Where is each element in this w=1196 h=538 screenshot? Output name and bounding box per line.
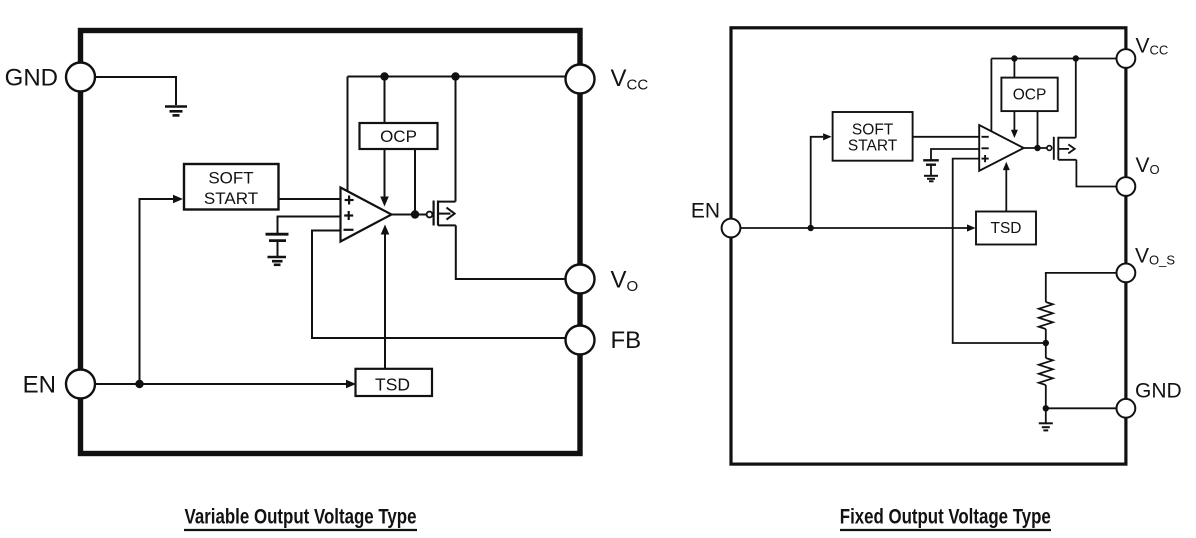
block SOFT START bbox=[184, 164, 279, 210]
pin Vo (circle, right, fixed) bbox=[1117, 177, 1136, 196]
wire Vo_s to divider bbox=[1046, 273, 1117, 302]
svg-text:TSD: TSD bbox=[991, 220, 1022, 237]
pin FB (circle, right) bbox=[566, 326, 595, 355]
svg-text:TSD: TSD bbox=[375, 375, 410, 395]
wire rail into OCP (fixed) bbox=[1013, 59, 1015, 78]
ground symbol (divider, fixed) bbox=[1039, 423, 1053, 430]
wire EN to TSD (with arrow) bbox=[95, 383, 346, 385]
block SOFT START (fixed) bbox=[833, 112, 913, 161]
svg-text:SOFT: SOFT bbox=[852, 122, 894, 139]
op-amp U1 (error amplifier) bbox=[341, 188, 392, 242]
wire Vcc rail (top) bbox=[348, 76, 566, 78]
block OCP (fixed) bbox=[1001, 78, 1057, 112]
block TSD (fixed) bbox=[976, 212, 1036, 245]
wire OCP control arrow into op-amp bbox=[384, 149, 386, 197]
ground symbol (Vref) bbox=[268, 257, 287, 265]
transistor Q2 PMOS pass element (fixed) bbox=[1047, 137, 1077, 160]
wire MOSFET drain to Vo pin bbox=[456, 225, 566, 279]
svg-text:SOFT: SOFT bbox=[208, 169, 253, 188]
wire OCP control arrow into op-amp (fixed) bbox=[1013, 111, 1015, 130]
svg-text:GND: GND bbox=[1135, 380, 1182, 403]
wire EN up to SOFT START (with arrow) bbox=[140, 199, 174, 384]
svg-text:OCP: OCP bbox=[380, 127, 417, 146]
wire rail down to op-amp supply (fixed) bbox=[990, 59, 992, 132]
junction dot rail/OCP (fixed) bbox=[1011, 55, 1017, 61]
op-amp U2 (error amplifier, fixed) bbox=[979, 125, 1024, 171]
svg-text:Variable Output Voltage Type: Variable Output Voltage Type bbox=[185, 505, 417, 529]
junction dot rail/MOSFET source (fixed) bbox=[1073, 55, 1079, 61]
wire op-amp +2 to reference bbox=[278, 217, 341, 234]
op-amp pin + (middle) bbox=[344, 211, 353, 220]
resistor R2 (lower divider) bbox=[1039, 358, 1053, 385]
wire Vcc rail (fixed) bbox=[991, 58, 1116, 60]
op-amp pin - (middle, fixed) bbox=[982, 147, 989, 149]
svg-text:FB: FB bbox=[611, 327, 642, 354]
transistor Q1 PMOS pass element bbox=[427, 201, 456, 226]
wire R1 to node bbox=[1045, 329, 1047, 343]
wire TSD arrow up into op-amp bbox=[384, 234, 386, 370]
wire GND pin to ground bbox=[95, 77, 176, 105]
pin Vcc (circle, top-right, fixed) bbox=[1117, 49, 1136, 68]
pin EN (circle, bottom-left) bbox=[66, 370, 95, 399]
svg-text:EN: EN bbox=[23, 372, 56, 399]
op-amp pin + (bottom, fixed) bbox=[982, 155, 989, 162]
wire OCP sense to gate node (fixed) bbox=[1037, 111, 1039, 148]
junction dot gate node (fixed) bbox=[1034, 145, 1040, 151]
junction dot R2/GND bbox=[1043, 405, 1049, 411]
wire R2 to GND pin bbox=[1046, 385, 1117, 408]
wire MOSFET drain to Vo pin (fixed) bbox=[1076, 160, 1116, 187]
wire op-amp -2 to reference (fixed) bbox=[931, 149, 979, 160]
wire FB pin to op-amp - input bbox=[312, 231, 566, 339]
pin GND (circle, top-left) bbox=[66, 63, 95, 92]
resistor R1 (upper divider) bbox=[1039, 302, 1053, 329]
reference source Vref (fixed) bbox=[923, 160, 939, 175]
wire OCP sense to gate node bbox=[414, 149, 416, 215]
wire divider node to op-amp + (feedback) bbox=[953, 159, 1046, 343]
block TSD bbox=[356, 369, 433, 396]
junction dot rail/MOSFET source bbox=[451, 72, 459, 80]
block OCP bbox=[360, 123, 438, 149]
svg-text:OCP: OCP bbox=[1013, 87, 1047, 104]
op-amp pin - (top, fixed) bbox=[982, 136, 989, 138]
junction dot EN node bbox=[135, 380, 143, 388]
op-amp pin - (bottom) bbox=[344, 229, 354, 231]
reference source Vref (battery/cap symbol) bbox=[266, 234, 289, 256]
pin Vo (circle, right) bbox=[566, 265, 595, 294]
pin GND (circle, right, fixed) bbox=[1117, 399, 1136, 418]
svg-text:GND: GND bbox=[5, 65, 58, 92]
junction dot rail/OCP bbox=[380, 72, 388, 80]
pin EN (circle, left, fixed) bbox=[722, 219, 741, 238]
svg-text:Fixed Output Voltage Type: Fixed Output Voltage Type bbox=[840, 505, 1051, 529]
wire MOSFET source to Vcc rail (fixed) bbox=[1075, 59, 1077, 138]
wire SOFT START to op-amp +1 bbox=[279, 198, 341, 200]
svg-text:START: START bbox=[204, 189, 258, 208]
junction dot EN node (fixed) bbox=[808, 225, 814, 231]
ground symbol (GND pin) bbox=[165, 107, 187, 116]
wire MOSFET source to Vcc rail bbox=[455, 77, 457, 202]
IC outline box (right diagram) bbox=[731, 28, 1126, 464]
svg-text:EN: EN bbox=[691, 200, 720, 223]
wire Vcc rail down to op-amp supply bbox=[347, 77, 349, 192]
svg-text:START: START bbox=[848, 138, 898, 155]
wire EN to TSD (fixed, with arrow) bbox=[740, 227, 967, 229]
junction dot divider node bbox=[1043, 340, 1049, 346]
pin Vo_s (circle, right, fixed) bbox=[1117, 264, 1136, 283]
ground symbol (Vref, fixed) bbox=[924, 176, 938, 182]
wire EN up to SOFT START (fixed, with arrow) bbox=[811, 137, 823, 228]
IC outline box (left diagram) bbox=[81, 31, 581, 454]
wire op-amp output to gate bbox=[392, 214, 427, 216]
wire node to R2 bbox=[1045, 343, 1047, 358]
wire op-amp output to gate (fixed) bbox=[1024, 147, 1047, 149]
wire node to ground symbol bbox=[1045, 408, 1047, 423]
pin Vcc (circle, top-right) bbox=[566, 65, 595, 94]
wire TSD arrow up into op-amp (fixed) bbox=[1005, 170, 1007, 212]
wire SOFT START to op-amp -1 (fixed) bbox=[913, 136, 979, 138]
op-amp pin + (top) bbox=[345, 196, 354, 205]
wire rail into OCP bbox=[384, 77, 386, 124]
junction dot gate node bbox=[411, 210, 419, 218]
